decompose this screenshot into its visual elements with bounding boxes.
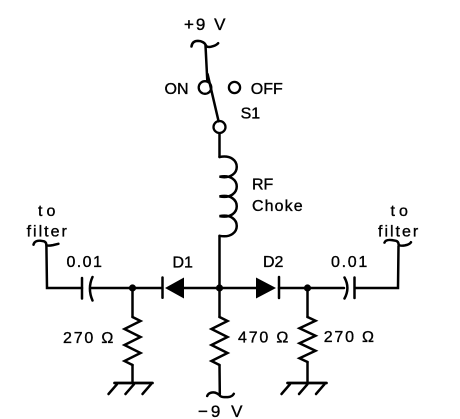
svg-text:−9 V: −9 V <box>198 402 245 419</box>
wire D2 to right capacitor <box>279 287 344 290</box>
label 0.01 (left capacitor) <box>67 254 104 271</box>
diode D2 <box>256 277 279 299</box>
label to filter (left) <box>27 203 69 241</box>
resistor R middle 470 <box>212 291 228 394</box>
label to filter (right) <box>378 203 420 241</box>
capacitor C right 0.01 <box>345 278 355 299</box>
ground (right) <box>282 383 327 394</box>
capacitor C left 0.01 <box>82 277 93 301</box>
node -9V label <box>198 402 245 419</box>
svg-text:S1: S1 <box>241 106 261 123</box>
svg-text:RF: RF <box>252 177 274 194</box>
svg-text:to: to <box>38 203 59 220</box>
wire D1 to D2 through center node <box>184 287 256 290</box>
svg-text:D1: D1 <box>173 255 194 272</box>
wire switch pole to RF choke <box>218 133 221 157</box>
svg-text:0.01: 0.01 <box>331 254 369 271</box>
svg-text:270 Ω: 270 Ω <box>63 330 115 347</box>
resistor R left 270 <box>125 291 141 383</box>
to-filter left wire hook <box>34 241 59 246</box>
label 270 ohm (right) <box>324 329 376 346</box>
label 270 ohm (left) <box>63 330 115 347</box>
label D2 <box>263 254 284 271</box>
wire left riser to filter <box>46 246 82 289</box>
switch S1 label OFF <box>251 81 283 98</box>
to-filter right wire hook <box>385 240 412 246</box>
node +9V wire hook <box>192 41 219 47</box>
node center junction dot <box>216 284 223 291</box>
svg-text:to: to <box>391 203 412 220</box>
ground (left) <box>109 383 153 394</box>
switch S1 ON contact <box>199 81 212 94</box>
svg-text:filter: filter <box>378 223 420 240</box>
label 0.01 (right capacitor) <box>331 254 369 271</box>
node +9V label <box>184 15 227 34</box>
wire RF choke to center node <box>218 236 221 288</box>
svg-text:270 Ω: 270 Ω <box>324 329 376 346</box>
node A junction dot <box>129 284 136 291</box>
switch S1 label <box>241 106 261 123</box>
svg-text:OFF: OFF <box>251 81 283 98</box>
resistor R right 270 <box>300 291 316 383</box>
inductor RF choke <box>220 157 237 237</box>
diode D1 <box>163 278 185 299</box>
switch S1 label ON <box>165 81 189 98</box>
label 470 ohm <box>238 330 290 347</box>
switch S1 pole contact <box>214 121 226 133</box>
node -9V wire hook <box>207 392 234 397</box>
svg-text:ON: ON <box>165 81 189 98</box>
wire left capacitor to node A <box>91 287 162 290</box>
wire +9V to switch ON contact <box>206 46 208 81</box>
svg-text:470 Ω: 470 Ω <box>238 330 290 347</box>
svg-text:0.01: 0.01 <box>67 254 104 271</box>
svg-text:+9 V: +9 V <box>184 15 227 34</box>
wire right capacitor to right riser <box>356 246 399 288</box>
svg-text:Choke: Choke <box>252 198 304 215</box>
label RF Choke <box>252 177 304 215</box>
node B junction dot <box>304 284 311 291</box>
switch S1 OFF contact <box>229 82 240 93</box>
switch S1 lever <box>208 74 219 121</box>
svg-text:D2: D2 <box>263 254 284 271</box>
label D1 <box>173 255 194 272</box>
svg-text:filter: filter <box>27 223 69 240</box>
